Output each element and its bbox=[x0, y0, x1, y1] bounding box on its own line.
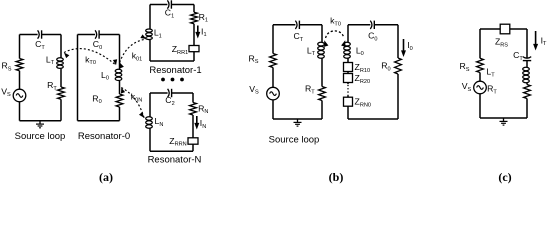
svg-text:Resonator-1: Resonator-1 bbox=[149, 65, 201, 76]
svg-text:(a): (a) bbox=[99, 170, 113, 184]
svg-text:Source loop: Source loop bbox=[269, 135, 320, 146]
svg-text:(c): (c) bbox=[498, 170, 511, 184]
svg-text:(b): (b) bbox=[329, 170, 344, 184]
svg-text:Resonator-0: Resonator-0 bbox=[78, 131, 130, 142]
svg-text:Resonator-N: Resonator-N bbox=[148, 155, 202, 166]
svg-text:Source loop: Source loop bbox=[15, 131, 66, 142]
